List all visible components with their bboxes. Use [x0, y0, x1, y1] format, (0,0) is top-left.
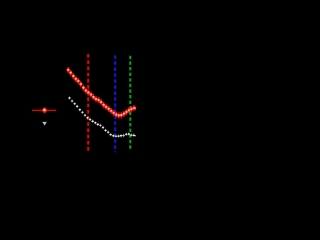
- isolated red point: horizontal error bar: [32, 109, 56, 111]
- red X-ray data series: [67, 67, 139, 119]
- red dashed vertical event line: [87, 54, 89, 152]
- green dashed vertical event line: [129, 56, 131, 150]
- isolated red point marker: [42, 108, 47, 113]
- blue dashed vertical event line: [114, 55, 116, 152]
- white optical data series: [68, 96, 138, 138]
- white upper-limit triangle: [42, 122, 47, 126]
- isolated red point: vertical error bar: [44, 107, 46, 113]
